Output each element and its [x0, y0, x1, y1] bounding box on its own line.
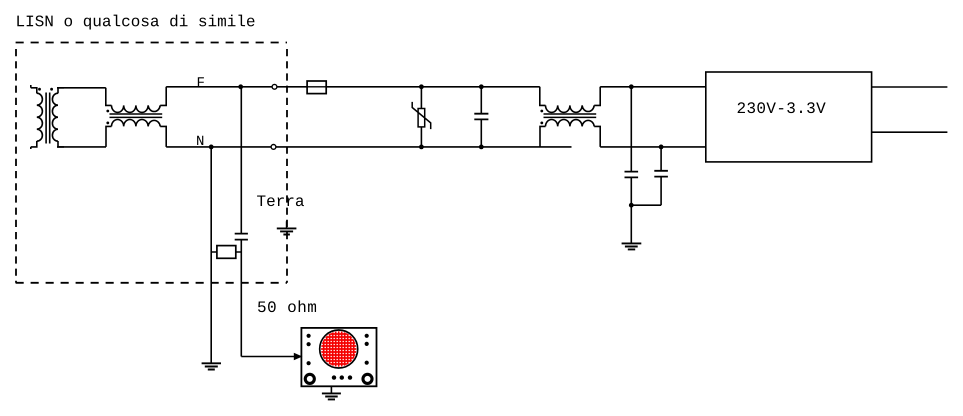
ground symbol (oscilloscope) [322, 393, 341, 399]
Terra label [257, 195, 304, 206]
arrowhead into oscilloscope [294, 353, 303, 361]
transformer T1 phase dot primary [38, 88, 41, 91]
junction varistor top [419, 84, 424, 89]
terminal circle on N at LISN boundary [271, 145, 276, 150]
transformer T1 core [46, 93, 50, 144]
transformer T1 secondary lead bottom [58, 141, 64, 147]
fuse F1 [307, 81, 326, 94]
oscilloscope knob dots right [365, 334, 369, 338]
node F label [198, 77, 204, 86]
ground symbol (Y-caps) [622, 243, 642, 249]
choke L2 top lead left [540, 87, 546, 106]
output wire top [872, 86, 948, 88]
junction varistor bottom [419, 145, 424, 150]
oscilloscope knob dots left [307, 334, 311, 338]
power supply box 230V-3.3V [706, 72, 872, 162]
resistor between measurement lines [211, 246, 241, 259]
junction F tap [238, 84, 243, 89]
choke L2 phase dot top [540, 110, 543, 113]
wire F from choke L1 to fuse [166, 86, 307, 88]
common-mode choke L1 [106, 87, 166, 147]
terminal circle on F at LISN boundary [272, 84, 277, 89]
transformer T1 secondary lead top [58, 88, 64, 94]
oscilloscope small buttons [332, 375, 336, 379]
wire F from choke L2 to power supply box [600, 86, 706, 88]
oscilloscope ground stub [330, 386, 332, 393]
choke L2 bottom lead right [594, 126, 600, 146]
oscilloscope big knob right [363, 374, 372, 383]
choke L1 core [110, 114, 163, 117]
choke L1 phase dot bottom [106, 122, 109, 125]
wire F from X-cap to choke L2 [481, 86, 540, 88]
capacitor CY1 [625, 87, 639, 205]
wire N from transformer to choke L1 [57, 146, 106, 148]
choke L2 bottom lead left [540, 126, 546, 146]
choke L1 top winding [112, 105, 161, 112]
oscilloscope U1 [301, 328, 376, 386]
wire F from transformer to choke L1 [57, 87, 106, 89]
choke L2 core [544, 114, 597, 117]
choke L1 top lead right [160, 87, 166, 106]
transformer T1 phase dot secondary [50, 88, 53, 91]
oscilloscope screen grid [320, 330, 358, 368]
wire F from fuse to varistor [326, 86, 421, 88]
choke L1 bottom lead right [160, 126, 166, 146]
LISN enclosure dashed box [16, 43, 287, 283]
node N label [197, 136, 203, 145]
title text "LISN o qualcosa di simile" [17, 15, 254, 30]
choke L1 phase dot top [106, 110, 109, 113]
power supply label [738, 102, 826, 113]
50 ohm label [258, 300, 316, 312]
varistor vertical wire [420, 87, 422, 147]
transformer T1 primary lead bottom [31, 141, 37, 149]
Terra ground stub [286, 221, 288, 228]
wire from N tap down to resistor / ground [210, 147, 212, 363]
ground symbol (N branch) [202, 363, 221, 369]
wire from coupling capacitor to bend [240, 240, 242, 356]
wire F from varistor to X-cap [421, 86, 481, 88]
wire joining Y-cap bottoms [631, 204, 661, 206]
wire N from choke L1 across LISN box [166, 146, 571, 148]
junction Y-cap2 top [659, 145, 664, 150]
common-mode choke L2 [540, 87, 600, 147]
wire from Y-cap junction to ground [630, 205, 632, 243]
choke L2 bottom winding [546, 119, 595, 126]
varistor RV1 [412, 84, 431, 149]
output wire bottom [872, 131, 948, 133]
choke L2 phase dot bottom [540, 122, 543, 125]
choke L2 top lead right [594, 87, 600, 106]
wire to oscilloscope with arrow [241, 356, 294, 358]
varistor diagonal stroke [412, 102, 431, 129]
wire N from choke L2 to power supply box [600, 146, 706, 148]
junction X-cap top [479, 84, 484, 89]
varistor body [418, 109, 425, 127]
capacitor coupling (measurement branch) [235, 234, 248, 240]
choke L1 bottom winding [112, 119, 161, 126]
ground symbol (Terra) [277, 228, 297, 234]
capacitor CY2 [654, 147, 668, 205]
transformer T1 primary lead top [31, 85, 37, 93]
choke L1 bottom lead left [106, 126, 112, 146]
junction Y-cap bottom [629, 203, 634, 208]
oscilloscope body [301, 328, 376, 386]
junction Y-cap1 top [629, 84, 634, 89]
transformer T1 primary winding [37, 93, 43, 141]
junction N tap [209, 145, 214, 150]
oscilloscope big knob left [305, 374, 314, 383]
transformer T1 [31, 85, 64, 149]
choke L2 top winding [546, 105, 595, 112]
wire from F tap down to coupling capacitor [240, 87, 242, 233]
choke L1 top lead left [106, 88, 112, 106]
junction X-cap bottom [479, 145, 484, 150]
transformer T1 secondary winding [52, 93, 58, 141]
capacitor CX1 (X-cap) [474, 84, 488, 149]
